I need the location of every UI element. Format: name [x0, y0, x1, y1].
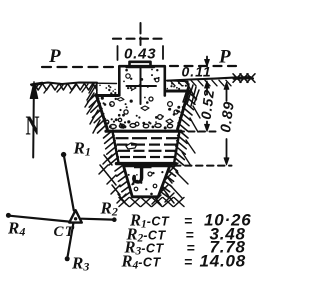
svg-text:=: = — [184, 254, 192, 270]
dimension 0.89 line with arrows — [224, 82, 229, 89]
soil hatch right band — [183, 84, 189, 102]
datum dashed line P right — [170, 65, 236, 67]
dimension 0.11 arrow — [206, 57, 208, 65]
ground surface right with hatch — [168, 77, 254, 80]
ground surface left with hatch — [31, 83, 97, 85]
svg-text:14.08: 14.08 — [200, 252, 247, 271]
stipple texture top block — [127, 87, 129, 89]
monument cap — [130, 62, 151, 66]
soil hatch below monument — [119, 198, 129, 207]
station CT triangle — [69, 210, 82, 222]
monument lower trapezoid — [124, 166, 170, 197]
monument collar left (stipple band left of block) — [97, 82, 117, 84]
point R1 — [61, 152, 66, 157]
point R3 — [65, 256, 70, 261]
point R4 — [6, 213, 11, 218]
monument top block — [119, 66, 165, 95]
centerline of monument (vertical dashed) — [140, 23, 142, 34]
anchor J mark at base — [134, 164, 152, 168]
svg-text:0.11: 0.11 — [182, 64, 212, 80]
dashed reference line at base of brick section — [174, 165, 232, 167]
svg-text:P: P — [218, 47, 231, 68]
svg-text:0.43: 0.43 — [124, 46, 156, 63]
ray CT to R2 — [82, 218, 113, 221]
dimension 0.43 extension ticks — [117, 46, 119, 60]
svg-text:CT: CT — [54, 224, 76, 240]
svg-text:N: N — [26, 111, 40, 141]
ray CT to R4 — [11, 216, 70, 222]
stipple texture upper trapezoid — [173, 113, 176, 116]
brick hatched base section — [113, 133, 119, 163]
monument upper trapezoid outline — [97, 97, 108, 130]
north arrow — [32, 96, 35, 158]
stipple texture collar right — [170, 85, 172, 87]
dashed reference line at base of upper section — [178, 131, 216, 133]
dimension 0.52 line with arrows — [205, 81, 210, 88]
dimension 0.43 dashed dimension line — [113, 38, 166, 40]
stipple texture lower trapezoid — [152, 172, 154, 174]
stipple texture collar left — [114, 92, 116, 94]
cross mark on monument top — [140, 69, 142, 105]
monument collar right (stipple band right of block) — [166, 81, 188, 82]
ray CT to R1 — [64, 157, 74, 210]
point R2 — [112, 217, 117, 222]
datum dashed line P left — [42, 66, 116, 68]
svg-text:P: P — [48, 46, 61, 67]
ray CT to R3 — [68, 224, 74, 256]
soil hatch left band — [87, 85, 96, 100]
